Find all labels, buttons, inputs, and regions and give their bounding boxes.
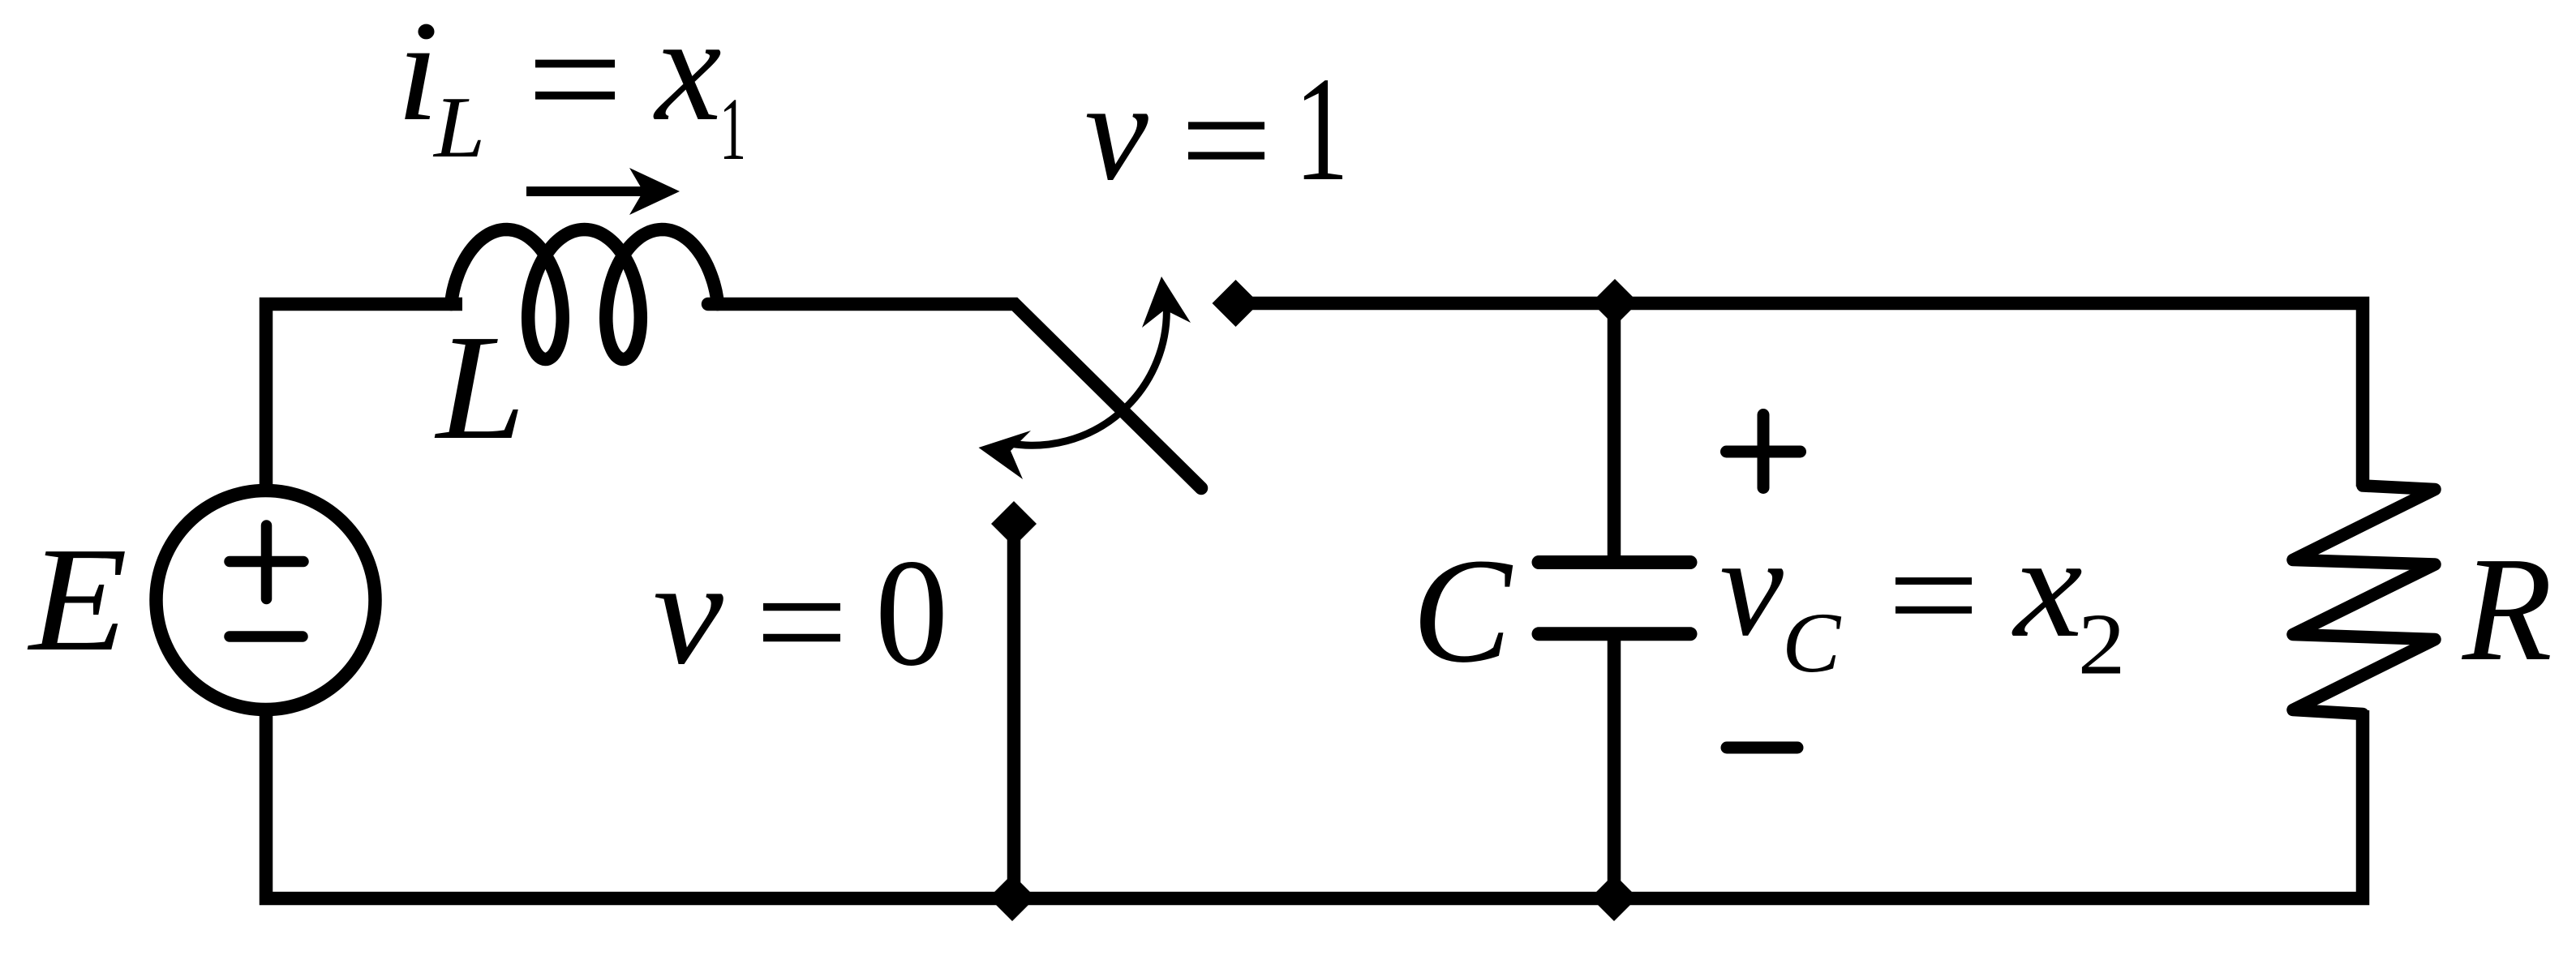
- svg-text:=: =: [755, 536, 848, 707]
- svg-text:v: v: [653, 530, 723, 696]
- svg-text:x: x: [653, 0, 722, 152]
- svg-text:v: v: [1084, 53, 1148, 209]
- svg-text:1: 1: [719, 79, 746, 179]
- svg-text:R: R: [2462, 526, 2552, 692]
- svg-text:1: 1: [1294, 45, 1349, 212]
- svg-text:x: x: [2011, 507, 2083, 668]
- svg-text:C: C: [1782, 596, 1842, 691]
- svg-text:=: =: [1180, 57, 1273, 223]
- svg-text:2: 2: [2078, 595, 2126, 692]
- svg-text:v: v: [1719, 508, 1784, 666]
- svg-text:0: 0: [875, 528, 948, 698]
- svg-text:=: =: [527, 0, 624, 168]
- svg-text:C: C: [1412, 528, 1513, 694]
- svg-text:L: L: [434, 303, 526, 470]
- svg-text:E: E: [27, 517, 127, 682]
- svg-text:i: i: [397, 0, 440, 151]
- svg-text:=: =: [1887, 516, 1980, 675]
- svg-text:L: L: [432, 79, 485, 176]
